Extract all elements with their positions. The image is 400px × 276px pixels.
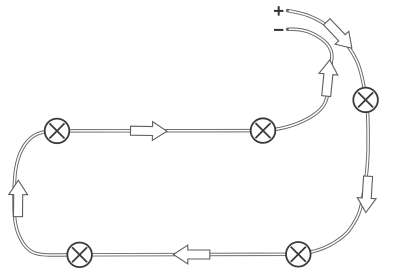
current arrow A1 on top wire, pointing right (130, 121, 167, 140)
current arrow A6 on left curve, pointing up (9, 180, 28, 217)
wire top horizontal (lamp L1 to lamp L2) (57, 129, 263, 133)
current arrow A3 on inner curve, pointing up (317, 59, 339, 97)
current arrow A5 on bottom wire, pointing left (173, 245, 209, 264)
wire inner curve (lamp L2 up to minus terminal) (263, 29, 332, 130)
lamp L5 (bottom left) (67, 243, 92, 268)
lamp L4 (bottom right) (286, 242, 311, 267)
wire right side (lamp L3 down to lamp L4) (298, 100, 368, 254)
lamp L2 (top middle) (251, 118, 276, 143)
current arrow A4 on right wire, pointing down (356, 176, 377, 214)
wire left C-curve (lamp L5 up to lamp L1) (14, 131, 80, 255)
plus terminal label (274, 6, 283, 15)
wire outer curve (plus terminal to lamp L3) (288, 11, 366, 100)
current arrow A2 on outer curve, pointing down-right (320, 15, 359, 54)
lamp L3 (right) (353, 88, 378, 113)
wire bottom horizontal (lamp L4 to lamp L5) (80, 253, 299, 257)
minus terminal label (274, 29, 283, 31)
lamp L1 (top left) (45, 119, 70, 144)
